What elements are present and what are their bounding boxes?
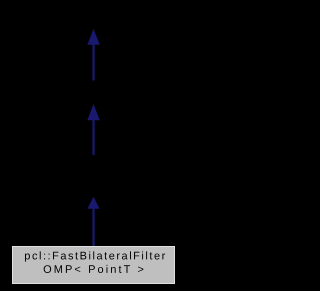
node A: inheritance arrow 1 head <box>87 29 100 45</box>
wire: inheritance arrow 2 (middle) stem <box>92 120 94 156</box>
node C: inheritance arrow 3 head <box>87 197 99 209</box>
node B: inheritance arrow 2 head <box>87 104 100 120</box>
wire: inheritance arrow 3 (bottom) stem <box>92 208 94 247</box>
wire: inheritance arrow 1 (top) stem <box>92 44 94 81</box>
svg-text:OMP< PointT >: OMP< PointT > <box>43 264 144 276</box>
class node box: pcl::FastBilateralFilterOMP< PointT > <box>13 247 175 284</box>
inheritance diagram: pcl::FastBilateralFilterOMP <box>0 0 187 291</box>
